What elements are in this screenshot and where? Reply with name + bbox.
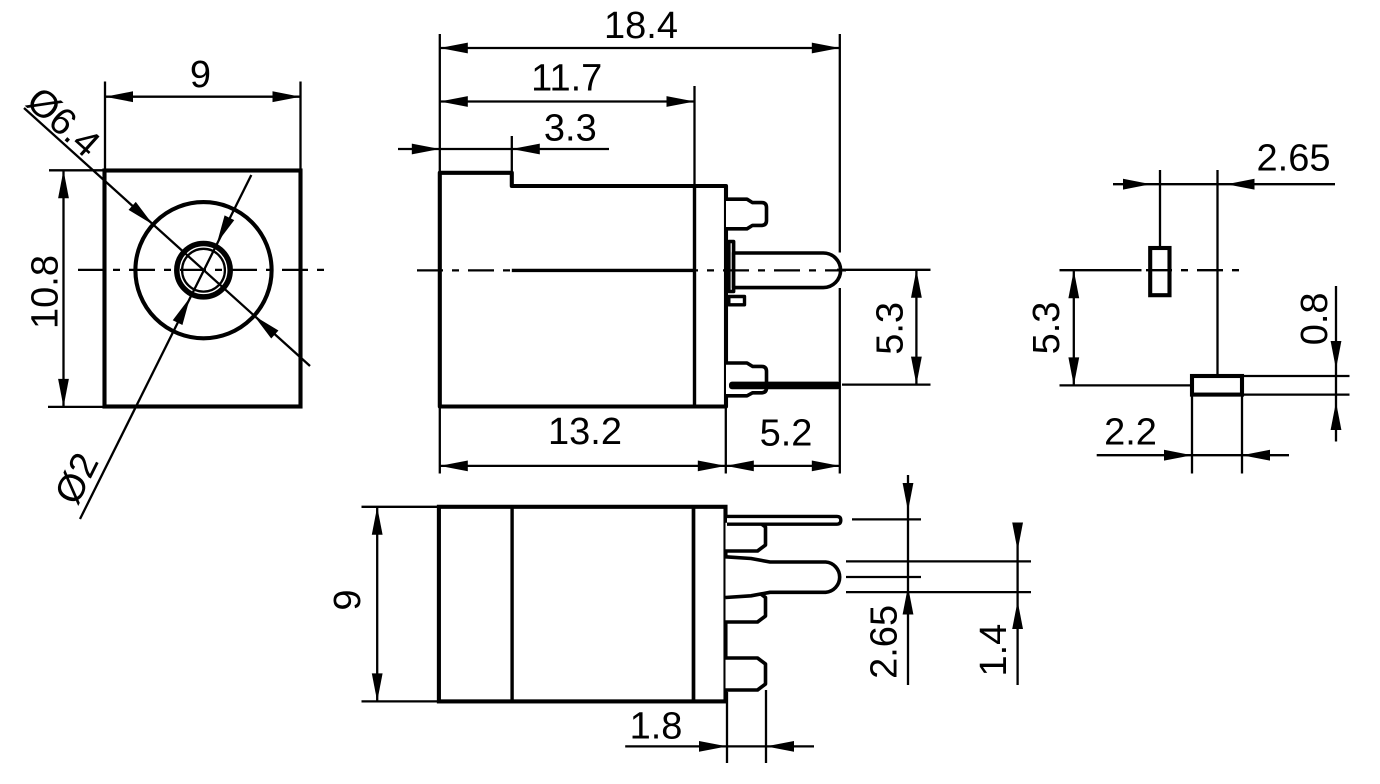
svg-text:11.7: 11.7 bbox=[531, 58, 602, 100]
svg-text:3.3: 3.3 bbox=[544, 107, 597, 149]
svg-text:1.8: 1.8 bbox=[630, 706, 683, 748]
svg-text:2.65: 2.65 bbox=[864, 605, 906, 679]
svg-text:5.2: 5.2 bbox=[760, 413, 813, 455]
svg-text:9: 9 bbox=[190, 54, 211, 96]
svg-text:10.8: 10.8 bbox=[24, 255, 66, 329]
svg-text:0.8: 0.8 bbox=[1294, 292, 1336, 345]
svg-text:5.3: 5.3 bbox=[1026, 302, 1068, 355]
svg-text:2.2: 2.2 bbox=[1104, 412, 1157, 454]
svg-text:1.4: 1.4 bbox=[973, 624, 1015, 677]
svg-text:5.3: 5.3 bbox=[869, 302, 911, 355]
svg-text:9: 9 bbox=[327, 589, 369, 610]
svg-text:18.4: 18.4 bbox=[604, 5, 678, 47]
svg-text:13.2: 13.2 bbox=[548, 411, 622, 453]
svg-text:2.65: 2.65 bbox=[1257, 138, 1331, 180]
